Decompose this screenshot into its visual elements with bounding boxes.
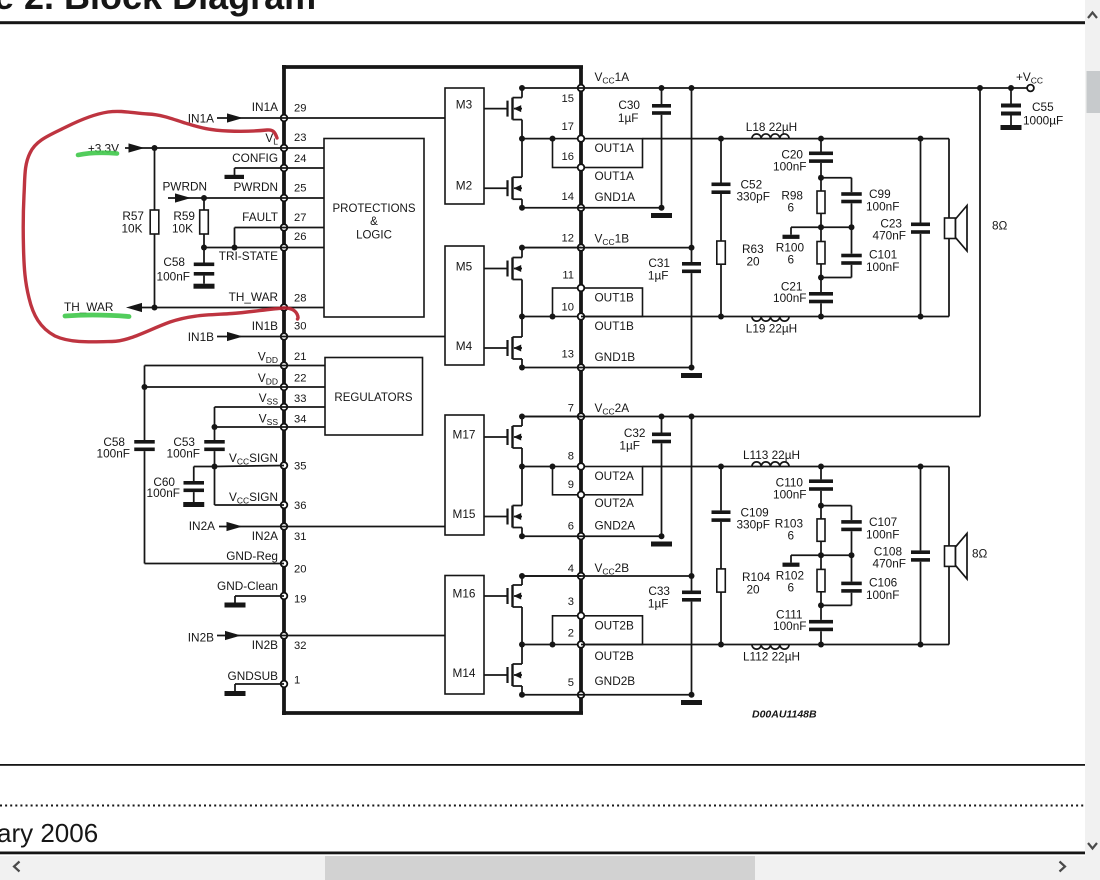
wire VSS pin34 branch — [215, 426, 285, 428]
svg-text:330pF: 330pF — [737, 190, 770, 204]
wire filtered row bottom — [581, 316, 949, 318]
junction node B — [818, 213, 824, 241]
capacitor C52 — [712, 139, 731, 241]
net label VCC1A — [595, 70, 630, 86]
block M16/M14 driver box — [445, 576, 484, 695]
pin number 29 — [294, 103, 306, 115]
vertical scrollbar up arrow — [1088, 13, 1097, 19]
label L19 — [746, 322, 797, 336]
wire M16 drain — [519, 573, 525, 585]
wire pin 28 to PROTECTIONS block — [284, 307, 324, 309]
inductor L18 — [752, 134, 789, 139]
wire filtered row bottom — [581, 644, 949, 646]
pin 19 terminal on left border — [281, 593, 288, 600]
label R103 — [775, 516, 804, 542]
wire VCC2A row — [522, 416, 980, 418]
pin number 5 — [568, 677, 574, 689]
svg-text:1µF: 1µF — [618, 111, 639, 125]
svg-text:L19 22µH: L19 22µH — [746, 322, 797, 336]
svg-text:19: 19 — [294, 594, 306, 606]
junction bottom/R104 column — [718, 642, 724, 648]
resistor R102 — [817, 569, 825, 591]
wire VCC2B feed / capacitor C33 — [682, 417, 701, 695]
wire TH_WAR pin28 out — [126, 303, 284, 312]
pin number 6 — [568, 521, 574, 533]
pin 22 terminal on left border — [281, 384, 288, 391]
mid ground stub — [791, 227, 821, 234]
input IN2B label — [188, 631, 214, 645]
wire C60 branch — [194, 467, 215, 482]
ground bar C58 — [194, 284, 215, 289]
svg-text:470nF: 470nF — [873, 556, 906, 570]
svg-text:PWRDN: PWRDN — [233, 180, 278, 194]
wire +3.3V to pin 23 — [125, 143, 284, 152]
svg-text:GND2A: GND2A — [595, 519, 636, 533]
wire VCC rail to M17 drain — [522, 416, 581, 418]
horizontal scrollbar track — [0, 856, 1100, 880]
pin label VDD 21 — [258, 350, 278, 366]
junction top/C109 column — [718, 464, 724, 470]
wire VCCSIGN pin36 riser — [215, 467, 285, 506]
label C58 (tri-state) — [157, 255, 190, 284]
pin terminal on spine — [578, 613, 585, 620]
wire out node row — [522, 138, 553, 140]
junction +3.3V / R57 — [152, 145, 158, 151]
svg-text:OUT1B: OUT1B — [595, 291, 634, 305]
pin number 19 — [294, 594, 306, 606]
node +3.3V label — [88, 142, 119, 156]
ground bar GNDSUB — [225, 691, 246, 696]
block M17/M15 driver box — [445, 415, 484, 535]
svg-text:10K: 10K — [172, 222, 193, 236]
svg-text:20: 20 — [294, 564, 306, 576]
svg-text:27: 27 — [294, 212, 306, 224]
svg-text:M4: M4 — [456, 339, 473, 353]
svg-text:2: 2 — [568, 628, 574, 640]
green underline TH_WAR — [65, 315, 129, 316]
vertical scrollbar track — [1085, 0, 1100, 880]
svg-text:TH_WAR: TH_WAR — [229, 290, 278, 304]
pin number 26 — [294, 231, 306, 243]
svg-text:IN2B: IN2B — [252, 638, 278, 652]
terminal +VCC — [1027, 85, 1034, 92]
wire GND row M14 — [522, 694, 581, 696]
resistor R100 — [817, 242, 825, 264]
junction bottom ladder — [818, 642, 824, 648]
svg-text:1µF: 1µF — [648, 269, 669, 283]
pin 20 terminal on left border — [281, 560, 288, 567]
svg-text:M3: M3 — [456, 98, 473, 112]
junction node B branch — [821, 552, 855, 558]
speaker — [945, 533, 968, 579]
svg-text:16: 16 — [562, 151, 574, 163]
svg-text:OUT1A: OUT1A — [595, 169, 634, 183]
wire VCC2B row — [522, 575, 692, 577]
junction OUT1A box corner — [550, 136, 556, 142]
pin number 35 — [294, 461, 306, 473]
config tie stub — [235, 168, 285, 175]
label C107 — [866, 515, 899, 542]
net label GND1A — [595, 190, 636, 204]
label M15 — [453, 507, 476, 521]
label C-top ladder — [773, 148, 806, 174]
capacitor C32 — [652, 417, 671, 537]
capacitor C58 (VDD) — [134, 440, 155, 564]
label C58 (VDD) — [97, 435, 130, 461]
net label GND2A — [595, 519, 636, 533]
label C60 — [147, 475, 180, 500]
label L112 — [743, 649, 800, 663]
wire speaker column — [948, 139, 950, 317]
pin 35 terminal on left border — [281, 462, 288, 469]
label L18 — [746, 120, 797, 134]
pin label FAULT — [242, 210, 278, 224]
junction node B — [818, 541, 824, 569]
ground bar GND2B — [681, 700, 702, 705]
svg-text:100nF: 100nF — [773, 619, 806, 633]
wire output node column — [519, 280, 525, 338]
junction OUT2B box corner — [550, 642, 556, 648]
capacitor C-bot ladder — [809, 264, 833, 317]
svg-text:VCCSIGN: VCCSIGN — [229, 451, 278, 467]
label C33 — [648, 584, 671, 611]
pin label GND-Clean — [217, 579, 278, 593]
wire pin 25 to PROTECTIONS block — [284, 197, 324, 199]
svg-text:LOGIC: LOGIC — [356, 230, 392, 242]
input IN1B arrow — [217, 332, 284, 341]
junction C53 / VCCSIGN — [212, 464, 218, 470]
junction node A — [818, 175, 824, 181]
pin number 24 — [294, 153, 306, 165]
pin number 12 — [562, 233, 574, 245]
svg-text:33: 33 — [294, 393, 306, 405]
pin number 27 — [294, 212, 306, 224]
svg-text:GND-Reg: GND-Reg — [226, 549, 278, 563]
wire IN1B pin30 to M5/M4 box — [284, 336, 445, 338]
label M16 — [453, 587, 476, 601]
junction rail/C55 — [1008, 85, 1014, 91]
svg-text:VCCSIGN: VCCSIGN — [229, 490, 278, 506]
resistor R57 — [150, 148, 159, 308]
inductor L113 — [752, 462, 789, 467]
horizontal scrollbar right arrow — [1060, 862, 1066, 872]
junction bottom ladder — [818, 314, 824, 320]
pin box OUT2A — [553, 467, 643, 495]
svg-text:M16: M16 — [453, 587, 476, 601]
wire VCC1B row — [522, 247, 692, 249]
wire M4 source — [519, 359, 525, 371]
mid ground bar — [783, 235, 800, 239]
junction FAULT / tri-state net — [232, 245, 238, 251]
ground bar GND1A — [651, 213, 672, 218]
wire IN1A pin29 to M3 box — [284, 117, 445, 119]
label M2 — [456, 179, 472, 193]
junction VSS pin34 — [212, 424, 218, 430]
svg-text:L18 22µH: L18 22µH — [746, 120, 797, 134]
wire tri-state net R59 to pin 26 — [204, 247, 284, 249]
footer bottom rule — [0, 852, 1085, 855]
label M17 — [453, 428, 476, 442]
transistor M16 — [484, 585, 523, 607]
capacitor C53 — [204, 440, 225, 467]
svg-text:17: 17 — [562, 121, 574, 133]
svg-text:M2: M2 — [456, 179, 472, 193]
wire FAULT jog pin27 to tri-state net — [235, 228, 285, 248]
wire pin 26 to PROTECTIONS block — [284, 247, 324, 249]
label M14 — [453, 666, 476, 680]
label R63 — [742, 242, 764, 269]
transistor M15 — [484, 506, 523, 528]
wire output node column — [519, 607, 525, 664]
pin number 8 — [568, 451, 574, 463]
capacitor C30 — [652, 88, 671, 208]
svg-text:IN1B: IN1B — [188, 330, 214, 344]
label C-bot ladder — [773, 280, 806, 306]
svg-text:21: 21 — [294, 351, 306, 363]
svg-text:4: 4 — [568, 563, 574, 575]
pin number 20 — [294, 564, 306, 576]
net label GND2B — [595, 674, 636, 688]
capacitor C55 — [1001, 88, 1021, 125]
label C53 — [167, 435, 200, 461]
IC main outline bottom border — [282, 711, 583, 715]
svg-text:26: 26 — [294, 231, 306, 243]
pin 32 terminal on left border — [281, 632, 288, 639]
pin terminal on spine — [578, 205, 585, 212]
svg-text:470nF: 470nF — [873, 229, 906, 243]
pin terminal on spine — [578, 463, 585, 470]
junction node C — [818, 275, 824, 281]
input IN1A label — [188, 112, 214, 126]
svg-text:10: 10 — [562, 302, 574, 314]
label C99 — [866, 187, 899, 214]
pin terminal on spine — [578, 492, 585, 499]
svg-text:IN1B: IN1B — [252, 319, 278, 333]
wire pin 33 to REGULATORS block — [284, 406, 325, 408]
wire VCC1A rail — [581, 87, 1028, 89]
ground bar GND2A — [651, 542, 672, 547]
wire VCC rail to M3 drain — [522, 87, 581, 89]
wire IN2B pin32 to M16/M14 box — [284, 635, 445, 637]
svg-text:34: 34 — [294, 414, 306, 426]
capacitor C108 — [911, 467, 930, 645]
wire VCC1B feed / capacitor C31 — [682, 88, 701, 368]
capacitor R63 — [0, 0, 1, 1]
wire M3 drain — [519, 85, 525, 98]
node TH_WAR label — [64, 300, 113, 314]
svg-text:D00AU1148B: D00AU1148B — [752, 709, 817, 721]
pin number 1 — [294, 675, 300, 687]
svg-text:6: 6 — [787, 253, 794, 267]
pin terminal on spine — [578, 573, 585, 580]
svg-text:1000µF: 1000µF — [1023, 114, 1063, 128]
label M4 — [456, 339, 473, 353]
pin 23 terminal on left border — [281, 145, 288, 152]
svg-text:CONFIG: CONFIG — [232, 151, 278, 165]
IC main outline left border — [282, 65, 286, 715]
pin 29 terminal on left border — [281, 115, 288, 122]
svg-text:OUT2B: OUT2B — [595, 649, 634, 663]
svg-text:OUT2A: OUT2A — [595, 496, 634, 510]
mid ground stub — [791, 555, 821, 562]
block REGULATORS — [325, 358, 423, 436]
junction bottom/C108 — [918, 642, 924, 648]
wire IN2A pin31 to M17/M15 box — [284, 526, 445, 528]
svg-text:6: 6 — [787, 528, 794, 542]
pin terminal on spine — [578, 692, 585, 699]
wire node C branch — [821, 277, 852, 279]
input IN1A arrow — [217, 113, 284, 122]
pin label TH_WAR — [229, 290, 278, 304]
wire filtered row top — [643, 466, 950, 468]
svg-text:100nF: 100nF — [866, 260, 899, 274]
wire output node column — [519, 120, 525, 178]
wire pin 24 to PROTECTIONS block — [284, 167, 324, 169]
junction top/ladder column — [818, 464, 824, 470]
block M5/M4 driver box — [445, 246, 484, 365]
pin 30 terminal on left border — [281, 333, 288, 340]
pin label VL — [265, 131, 278, 147]
pin number 36 — [294, 500, 306, 512]
svg-text:15: 15 — [562, 93, 574, 105]
svg-text:20: 20 — [747, 582, 761, 596]
block M3/M2 driver box — [445, 88, 484, 204]
capacitor C58 (tri-state) — [194, 248, 215, 284]
svg-text:&: & — [370, 216, 378, 228]
pin number 2 — [568, 628, 574, 640]
junction VCC2A/C32 — [659, 414, 665, 420]
svg-text:20: 20 — [747, 255, 761, 269]
svg-text:100nF: 100nF — [773, 160, 806, 174]
capacitor C60 — [184, 481, 205, 502]
pin label CONFIG — [232, 151, 278, 165]
svg-text:11: 11 — [562, 270, 574, 282]
pin 21 terminal on left border — [281, 362, 288, 369]
pin 28 terminal on left border — [281, 304, 288, 311]
pin terminal on spine — [578, 285, 585, 292]
svg-text:100nF: 100nF — [97, 447, 130, 461]
footer rule — [0, 764, 1085, 766]
label L113 — [743, 448, 800, 462]
svg-text:28: 28 — [294, 292, 306, 304]
junction top/C108 — [918, 464, 924, 470]
svg-text:C58: C58 — [163, 255, 185, 269]
label C108 — [873, 544, 906, 570]
capacitor C-top ladder R103 — [809, 467, 833, 519]
pin label IN1B — [252, 319, 278, 333]
label R100 — [776, 241, 805, 267]
svg-text:25: 25 — [294, 182, 306, 194]
junction VDD pin22 — [142, 384, 148, 390]
IC main outline top border — [282, 65, 583, 69]
svg-text:6: 6 — [787, 201, 794, 215]
junction R59 bottom — [201, 245, 207, 251]
svg-text:GNDSUB: GNDSUB — [228, 669, 279, 683]
junction rail/VCC2 feed — [977, 85, 983, 91]
capacitor C107 — [841, 506, 862, 556]
pin terminal on spine — [578, 164, 585, 171]
svg-text:OUT1A: OUT1A — [595, 141, 634, 155]
pin label IN2A — [252, 529, 278, 543]
pin number 33 — [294, 393, 306, 405]
transistor M2 — [484, 177, 523, 199]
svg-text:M5: M5 — [456, 260, 473, 274]
svg-text:22: 22 — [294, 373, 306, 385]
svg-text:10K: 10K — [122, 222, 143, 236]
pin terminal on spine — [578, 641, 585, 648]
junction rail/C31 feed — [689, 85, 695, 91]
capacitor C-bot ladder — [809, 592, 833, 645]
transistor M17 — [484, 426, 523, 448]
svg-text:GND2B: GND2B — [595, 674, 636, 688]
junction VCC2A/C33 feed — [689, 414, 695, 420]
wire VDD pin21 branch — [145, 366, 285, 441]
label C-top ladder — [773, 475, 806, 501]
label C109 — [737, 505, 770, 531]
net label OUT2B — [595, 649, 634, 663]
resistor R98 — [817, 191, 825, 213]
wire GND-Clean stub — [235, 596, 284, 603]
svg-text:GND1B: GND1B — [595, 350, 636, 364]
input IN2B arrow — [217, 631, 284, 640]
svg-text:C30: C30 — [618, 98, 640, 112]
label R57 — [122, 209, 145, 236]
svg-text:OUT1B: OUT1B — [595, 319, 634, 333]
label C106 — [866, 575, 899, 602]
pin 34 terminal on left border — [281, 424, 288, 431]
wire VCC rail to M5 drain — [522, 247, 581, 249]
wire VCC2 feed drop — [979, 88, 981, 417]
svg-text:24: 24 — [294, 153, 306, 165]
pin label GNDSUB — [228, 669, 279, 683]
capacitor C101 — [841, 227, 862, 277]
wire speaker column — [948, 467, 950, 645]
pin box OUT1B — [553, 288, 643, 317]
svg-text:PWRDN: PWRDN — [162, 179, 207, 193]
pin number 34 — [294, 414, 306, 426]
pin number 25 — [294, 182, 306, 194]
svg-text:L113 22µH: L113 22µH — [743, 448, 800, 462]
transistor M4 — [484, 337, 523, 359]
pin 27 terminal on left border — [281, 224, 288, 231]
capacitor R104 — [0, 0, 1, 1]
svg-text:330pF: 330pF — [737, 517, 770, 531]
pin 25 terminal on left border — [281, 195, 288, 202]
svg-text:100nF: 100nF — [167, 447, 200, 461]
pin terminal on spine — [578, 313, 585, 320]
wire GND-Reg pin20 — [145, 563, 285, 565]
horizontal scrollbar thumb — [325, 856, 755, 880]
label speaker impedance — [972, 547, 988, 561]
ground bar GND-Clean — [225, 603, 246, 608]
svg-text:100nF: 100nF — [147, 486, 180, 500]
svg-text:8Ω: 8Ω — [972, 547, 988, 561]
junction node A — [818, 503, 824, 509]
net label VCC2B — [595, 561, 630, 577]
vertical scrollbar thumb — [1087, 71, 1100, 113]
wire PWRDN to pin 25 — [168, 193, 284, 202]
wire GND1A row to C30 — [581, 205, 665, 211]
svg-text:L112 22µH: L112 22µH — [743, 649, 800, 663]
svg-text:30: 30 — [294, 321, 306, 333]
svg-text:M15: M15 — [453, 507, 476, 521]
wire M15 source — [519, 528, 525, 540]
svg-text:e 2. Block Diagram: e 2. Block Diagram — [0, 0, 316, 17]
pin label IN1A — [252, 100, 278, 114]
input IN1B label — [188, 330, 214, 344]
pin 31 terminal on left border — [281, 523, 288, 530]
svg-text:100nF: 100nF — [866, 527, 899, 541]
